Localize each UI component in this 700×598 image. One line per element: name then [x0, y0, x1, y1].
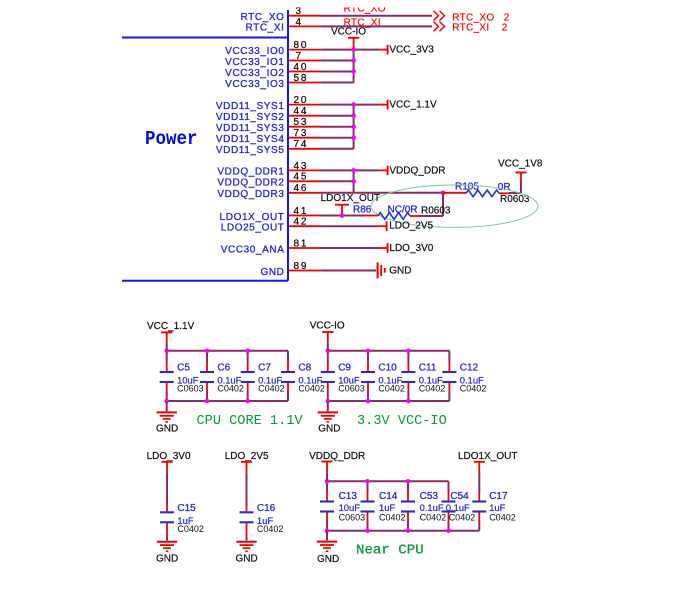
svg-text:GND: GND: [318, 423, 340, 434]
svg-text:0.1uF: 0.1uF: [420, 502, 444, 513]
svg-text:VCC33_IO0: VCC33_IO0: [225, 46, 284, 57]
svg-text:C0402: C0402: [420, 513, 447, 523]
svg-text:VCC33_IO1: VCC33_IO1: [225, 57, 284, 68]
svg-text:20: 20: [294, 95, 309, 106]
svg-text:C15: C15: [177, 503, 196, 514]
svg-text:VCC-IO: VCC-IO: [310, 320, 345, 331]
svg-text:C9: C9: [338, 362, 351, 373]
svg-text:C53: C53: [420, 491, 439, 502]
svg-text:0R: 0R: [498, 182, 511, 193]
svg-text:4: 4: [296, 17, 303, 28]
svg-text:VDDQ_DDR2: VDDQ_DDR2: [217, 178, 284, 189]
svg-text:89: 89: [294, 261, 309, 272]
svg-text:C14: C14: [379, 491, 398, 502]
svg-text:1uF: 1uF: [379, 502, 395, 513]
svg-text:VCC33_IO2: VCC33_IO2: [225, 68, 284, 79]
svg-text:C0402: C0402: [460, 383, 487, 393]
svg-text:C0402: C0402: [379, 513, 406, 523]
svg-text:LDO_2V5: LDO_2V5: [225, 451, 269, 462]
svg-text:Near CPU: Near CPU: [356, 543, 424, 559]
svg-text:VCC33_IO3: VCC33_IO3: [225, 79, 284, 90]
svg-text:74: 74: [294, 139, 309, 150]
svg-text:VCC_1.1V: VCC_1.1V: [147, 321, 195, 332]
svg-text:VDDQ_DDR: VDDQ_DDR: [309, 451, 365, 462]
svg-text:10uF: 10uF: [339, 502, 361, 513]
svg-text:GND: GND: [389, 266, 411, 277]
svg-text:C0402: C0402: [298, 383, 325, 393]
svg-text:44: 44: [294, 106, 309, 117]
svg-text:R0603: R0603: [421, 206, 451, 217]
svg-text:7: 7: [296, 51, 303, 62]
svg-text:C7: C7: [258, 362, 271, 373]
svg-text:42: 42: [294, 217, 309, 228]
svg-text:45: 45: [294, 172, 309, 183]
svg-text:LDO1X_OUT: LDO1X_OUT: [458, 451, 517, 462]
svg-text:LDO_3V0: LDO_3V0: [147, 451, 191, 462]
svg-text:R0603: R0603: [500, 194, 530, 205]
svg-text:C0603: C0603: [339, 513, 366, 523]
svg-text:C11: C11: [419, 362, 437, 373]
svg-text:C8: C8: [298, 362, 311, 373]
svg-text:RTC_XO 2: RTC_XO 2: [452, 12, 509, 23]
svg-text:C0402: C0402: [489, 513, 516, 523]
svg-text:C13: C13: [339, 491, 358, 502]
svg-text:VDD11_SYS3: VDD11_SYS3: [216, 123, 285, 134]
svg-text:73: 73: [294, 128, 309, 139]
svg-text:NC/0R: NC/0R: [388, 205, 418, 216]
svg-text:1uF: 1uF: [489, 502, 505, 513]
svg-text:VDDQ_DDR1: VDDQ_DDR1: [217, 167, 284, 178]
svg-text:VCC_1V8: VCC_1V8: [498, 159, 543, 170]
svg-text:C54: C54: [450, 491, 469, 502]
svg-text:81: 81: [294, 238, 309, 249]
svg-text:VCC30_ANA: VCC30_ANA: [221, 244, 285, 255]
svg-text:C17: C17: [489, 491, 508, 502]
svg-text:C5: C5: [177, 362, 190, 373]
svg-text:C0603: C0603: [338, 383, 365, 393]
svg-text:LDO_3V0: LDO_3V0: [389, 243, 433, 254]
svg-text:GND: GND: [156, 554, 178, 565]
svg-text:80: 80: [294, 40, 309, 51]
svg-text:58: 58: [294, 73, 309, 84]
svg-text:VCC_3V3: VCC_3V3: [389, 45, 434, 56]
svg-text:GND: GND: [260, 267, 284, 278]
svg-text:C6: C6: [217, 362, 230, 373]
svg-text:46: 46: [294, 183, 309, 194]
svg-text:LDO1X_OUT: LDO1X_OUT: [220, 212, 285, 223]
svg-text:C0402: C0402: [257, 524, 284, 534]
svg-text:VCC_1.1V: VCC_1.1V: [389, 100, 437, 111]
svg-text:C10: C10: [378, 362, 397, 373]
svg-text:C12: C12: [460, 362, 479, 373]
svg-text:RTC_XO: RTC_XO: [241, 12, 285, 23]
svg-text:43: 43: [294, 161, 309, 172]
svg-text:GND: GND: [236, 554, 258, 565]
svg-text:C0402: C0402: [419, 383, 446, 393]
svg-text:C0402: C0402: [217, 383, 244, 393]
svg-text:VDDQ_DDR3: VDDQ_DDR3: [217, 189, 284, 200]
svg-text:LDO1X_OUT: LDO1X_OUT: [321, 193, 380, 204]
svg-text:VDD11_SYS2: VDD11_SYS2: [216, 112, 285, 123]
svg-text:3.3V VCC-IO: 3.3V VCC-IO: [357, 414, 447, 429]
svg-text:0.1uF: 0.1uF: [446, 502, 470, 513]
svg-text:53: 53: [294, 117, 309, 128]
svg-text:RTC_XI: RTC_XI: [246, 23, 285, 34]
svg-text:C0402: C0402: [258, 383, 285, 393]
svg-text:VCC-IO: VCC-IO: [331, 26, 366, 37]
svg-text:RTC_XI 2: RTC_XI 2: [452, 23, 507, 34]
svg-text:C16: C16: [257, 503, 276, 514]
svg-text:LDO25_OUT: LDO25_OUT: [221, 223, 285, 234]
svg-text:C0603: C0603: [177, 383, 204, 393]
svg-text:GND: GND: [156, 423, 178, 434]
svg-text:40: 40: [294, 62, 309, 73]
svg-text:GND: GND: [317, 554, 339, 565]
svg-text:41: 41: [294, 206, 309, 217]
svg-text:VDD11_SYS5: VDD11_SYS5: [216, 145, 285, 156]
svg-text:Power: Power: [145, 128, 198, 150]
svg-text:C0402: C0402: [449, 513, 476, 523]
svg-text:R105: R105: [455, 182, 479, 193]
svg-text:CPU CORE 1.1V: CPU CORE 1.1V: [197, 414, 304, 429]
svg-text:R86: R86: [353, 205, 372, 216]
svg-text:VDD11_SYS1: VDD11_SYS1: [216, 101, 285, 112]
svg-text:LDO_2V5: LDO_2V5: [389, 221, 433, 232]
svg-text:VDDQ_DDR: VDDQ_DDR: [389, 166, 445, 177]
svg-text:VDD11_SYS4: VDD11_SYS4: [216, 134, 285, 145]
svg-text:C0402: C0402: [378, 383, 405, 393]
svg-text:3: 3: [296, 6, 303, 17]
svg-text:C0402: C0402: [177, 524, 204, 534]
